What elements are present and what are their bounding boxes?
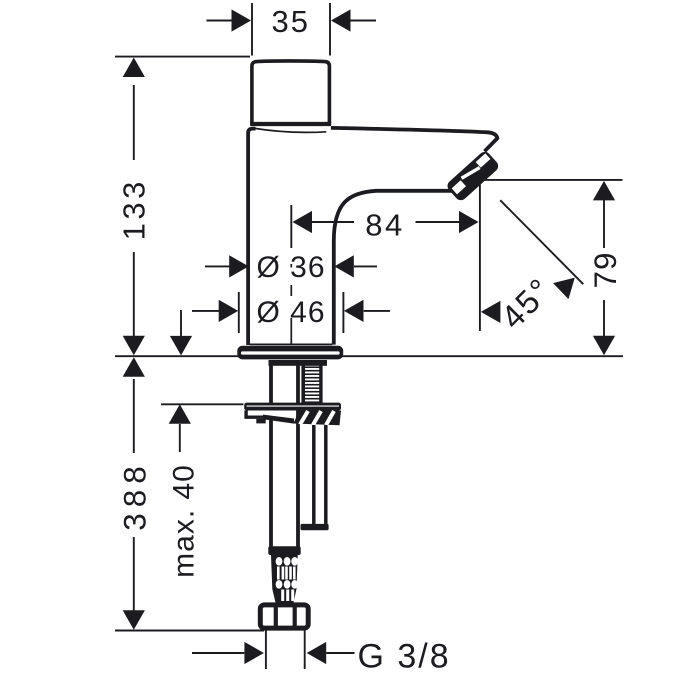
svg-text:79: 79 — [587, 251, 623, 288]
body bottom seam — [250, 343, 332, 345]
clamp bracket white underlays — [248, 410, 266, 415]
spout top edge — [331, 128, 497, 151]
extension line Ø46 right — [342, 292, 344, 333]
extension line handle top (133) — [115, 56, 250, 58]
clamp hatched wedge — [294, 411, 342, 426]
hose collar — [268, 546, 300, 555]
rod foot — [301, 524, 329, 530]
aerator at spout outlet — [445, 149, 501, 202]
dimension Ø 36 — [205, 265, 377, 267]
svg-text:G 3/8: G 3/8 — [358, 637, 451, 674]
handle bottom edge — [250, 122, 331, 126]
extension line spout outlet vertical (45 deg) — [479, 180, 481, 331]
dimension 79 — [603, 200, 605, 337]
dimension 133 — [133, 85, 135, 337]
dimension 35 — [207, 20, 377, 22]
centerline dash-dot of faucet axis — [290, 264, 292, 345]
centerline tick above 84 — [290, 205, 292, 248]
svg-text:Ø 36: Ø 36 — [257, 251, 326, 284]
bottom reference line 388 — [115, 630, 264, 632]
faucet handle cap — [252, 61, 330, 125]
svg-text:133: 133 — [116, 178, 151, 240]
clamp strap — [263, 415, 294, 424]
svg-text:35: 35 — [272, 4, 310, 39]
extension line Ø46 left — [238, 292, 240, 333]
base flange — [237, 346, 343, 360]
svg-text:84: 84 — [365, 207, 404, 242]
dimension 388 — [133, 379, 135, 611]
dimension G 3/8 — [192, 652, 355, 654]
extension line 35 right — [329, 3, 331, 56]
braided hose — [271, 555, 298, 603]
dimension Ø 46 — [192, 310, 390, 312]
tailpiece pipe — [271, 365, 298, 549]
svg-text:Ø 46: Ø 46 — [257, 296, 326, 329]
extension line spout outlet horizontal (79) — [480, 179, 623, 181]
fixing rod below clamp — [314, 425, 326, 524]
dimension 45 degrees — [500, 200, 583, 284]
svg-text:max. 40: max. 40 — [168, 464, 201, 578]
extension line 35 left — [251, 3, 253, 56]
extension line clamp top (max.40) — [161, 403, 244, 405]
handle skirt seam — [252, 128, 326, 132]
thread stub lines — [266, 631, 305, 670]
svg-text:388: 388 — [117, 460, 153, 531]
dimension max. 40 — [180, 310, 182, 337]
collar under flange — [269, 360, 328, 366]
body left edge — [248, 129, 255, 345]
threaded mounting stud — [303, 365, 321, 404]
compression nut G3/8 — [260, 605, 308, 628]
clamp left lug — [244, 410, 265, 419]
dimension 84 — [312, 221, 460, 223]
clamp bracket top bar — [244, 403, 341, 411]
mounting surface line — [115, 355, 623, 357]
stud threads — [305, 367, 320, 402]
spout underside — [334, 191, 455, 345]
